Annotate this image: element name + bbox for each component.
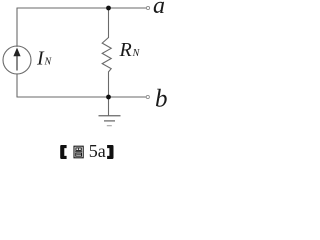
wire top horizontal [17,7,146,9]
terminal a open circle [146,6,149,9]
current source IN circle [3,46,31,74]
wire resistor top lead [108,8,110,38]
caption right bracket [107,145,113,159]
wire left vertical lower [16,74,18,97]
ground stub wire [108,97,110,115]
svg-text:b: b [155,86,168,113]
resistor RN zigzag [102,38,111,72]
wire left vertical upper [16,8,18,47]
svg-text:5a: 5a [89,141,106,161]
label RN [119,39,141,61]
current source arrow [13,48,20,71]
caption glyph tu (figure) [74,146,83,158]
wire bottom horizontal [17,96,146,98]
wire resistor bottom lead [108,72,110,97]
label IN [36,47,53,69]
junction dot top [106,6,111,11]
svg-text:N: N [132,48,141,59]
junction dot bottom [106,95,111,100]
svg-text:R: R [119,39,132,61]
terminal b open circle [146,95,149,98]
ground symbol bars [99,116,121,126]
caption left bracket [60,145,66,159]
svg-text:a: a [153,0,165,19]
svg-text:N: N [44,56,53,67]
